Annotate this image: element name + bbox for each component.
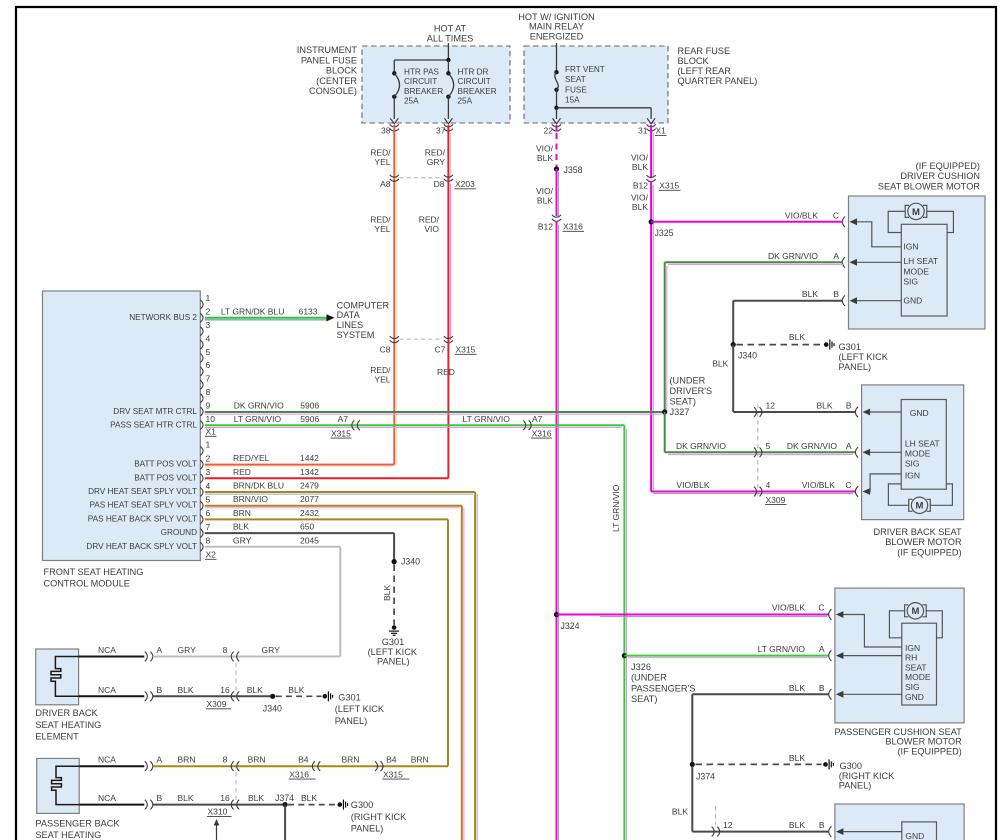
svg-text:7: 7 xyxy=(206,522,211,532)
svg-text:CIRCUIT: CIRCUIT xyxy=(458,77,491,86)
border frame xyxy=(15,6,997,8)
svg-text:B: B xyxy=(819,683,825,693)
wire BLK vertical right xyxy=(691,694,693,831)
heating element symbol driver xyxy=(51,657,79,697)
wire VIO/BLK dashed segment xyxy=(556,125,558,131)
label under passenger's seat xyxy=(631,662,695,704)
svg-text:G300: G300 xyxy=(351,800,373,810)
wire RED/YEL vertical xyxy=(393,125,395,465)
svg-text:1342: 1342 xyxy=(300,467,319,477)
svg-text:4: 4 xyxy=(206,481,211,491)
svg-text:5906: 5906 xyxy=(300,401,319,411)
svg-text:X316: X316 xyxy=(289,769,309,779)
svg-text:B12: B12 xyxy=(633,181,648,191)
svg-text:BLK: BLK xyxy=(712,359,728,369)
svg-text:2: 2 xyxy=(206,307,211,317)
svg-text:38: 38 xyxy=(381,126,391,136)
svg-text:VIO/BLK: VIO/BLK xyxy=(802,480,835,490)
svg-text:15A: 15A xyxy=(565,96,580,105)
svg-text:MAIN RELAY: MAIN RELAY xyxy=(529,22,584,32)
wire BLK dashed element to G301 xyxy=(276,695,322,697)
svg-text:YEL: YEL xyxy=(374,375,390,385)
svg-text:(RIGHT KICK: (RIGHT KICK xyxy=(839,771,895,781)
label computer data lines system xyxy=(337,300,390,340)
svg-text:BLOCK: BLOCK xyxy=(678,56,710,66)
svg-text:LT GRN/DK BLU: LT GRN/DK BLU xyxy=(221,306,284,316)
wire BLK module pin 7 xyxy=(205,532,394,534)
wire NCA driver B xyxy=(79,695,145,697)
svg-text:LT GRN/VIO: LT GRN/VIO xyxy=(758,644,806,654)
label passenger cushion motor xyxy=(835,727,963,757)
wire BLK passenger row xyxy=(153,804,285,806)
svg-text:B: B xyxy=(846,401,852,411)
connector pin B passenger element xyxy=(150,800,153,810)
svg-text:M: M xyxy=(911,606,919,617)
ground G301 right xyxy=(824,342,829,347)
svg-text:YEL: YEL xyxy=(374,157,390,167)
wire BLK passenger cushion B xyxy=(692,693,829,695)
svg-text:X309: X309 xyxy=(766,495,786,505)
driver back motor box xyxy=(862,385,964,520)
svg-text:G301: G301 xyxy=(338,693,360,703)
wire BLK dashed to G300 right xyxy=(696,763,822,765)
svg-text:J340: J340 xyxy=(738,351,757,361)
svg-text:A: A xyxy=(833,251,839,261)
connector A7 X316 xyxy=(529,420,532,430)
svg-text:BRN: BRN xyxy=(178,755,196,765)
connector pin A passenger element xyxy=(150,761,153,771)
svg-text:12: 12 xyxy=(723,820,733,830)
svg-text:SEAT: SEAT xyxy=(565,75,586,84)
svg-text:1: 1 xyxy=(206,293,211,303)
svg-text:FUSE: FUSE xyxy=(565,85,587,94)
wire VIO/BLK to passenger cushion C xyxy=(557,614,830,616)
svg-text:B: B xyxy=(833,289,839,299)
fuse FRT VENT SEAT 15A xyxy=(554,70,558,74)
motor M1 loop wires xyxy=(888,211,905,232)
wire VIO/BLK to driver cushion C xyxy=(651,221,843,223)
wire RED/VIO segment xyxy=(447,178,449,340)
svg-text:BLK: BLK xyxy=(537,196,553,206)
svg-text:VIO/: VIO/ xyxy=(536,144,554,154)
svg-text:8: 8 xyxy=(206,536,211,546)
svg-text:MODE: MODE xyxy=(905,672,931,682)
svg-text:DRIVER BACK SEAT: DRIVER BACK SEAT xyxy=(873,527,962,537)
connector 8 GRY xyxy=(231,652,234,662)
svg-text:A8: A8 xyxy=(380,179,391,189)
wire VIO/BLK turn to row 4 xyxy=(651,491,855,493)
svg-text:VIO: VIO xyxy=(424,224,439,234)
wire BRN module pin 6 xyxy=(205,518,448,520)
svg-text:REAR FUSE: REAR FUSE xyxy=(678,46,731,56)
connector D8 X203 xyxy=(444,175,453,178)
svg-text:B4: B4 xyxy=(386,755,397,765)
svg-text:BLK: BLK xyxy=(288,685,304,695)
module connector X1 pins 1-10 xyxy=(200,300,203,309)
svg-text:(LEFT KICK: (LEFT KICK xyxy=(839,352,889,362)
svg-text:IGN: IGN xyxy=(905,470,920,480)
svg-text:16: 16 xyxy=(220,793,230,803)
wire NCA passenger B xyxy=(79,804,144,806)
svg-text:25A: 25A xyxy=(458,97,473,106)
svg-text:J326: J326 xyxy=(631,662,651,672)
wire BRN/DK BLU module pin 4 xyxy=(205,491,475,493)
pin A passenger cushion xyxy=(829,650,832,661)
dash link X203 xyxy=(400,177,444,179)
svg-text:(IF EQUIPPED): (IF EQUIPPED) xyxy=(916,161,980,171)
svg-text:X315: X315 xyxy=(383,769,403,779)
svg-text:NCA: NCA xyxy=(98,685,116,695)
svg-text:VIO/: VIO/ xyxy=(631,153,649,163)
svg-text:4: 4 xyxy=(206,333,211,343)
svg-text:5: 5 xyxy=(206,347,211,357)
svg-text:BRN/DK BLU: BRN/DK BLU xyxy=(233,481,284,491)
motor M3 xyxy=(907,603,923,619)
svg-text:(IF EQUIPPED): (IF EQUIPPED) xyxy=(897,547,961,557)
connector C8 X315 xyxy=(390,336,399,339)
pin B passenger cushion xyxy=(829,689,832,700)
svg-text:LT GRN/VIO: LT GRN/VIO xyxy=(234,414,282,424)
svg-text:C: C xyxy=(833,210,839,220)
svg-text:SIG: SIG xyxy=(903,277,918,287)
dash boundary X309 xyxy=(757,404,759,496)
junction J340 module xyxy=(392,559,397,564)
svg-text:6133: 6133 xyxy=(299,306,318,316)
svg-text:GND: GND xyxy=(905,831,924,840)
svg-text:X203: X203 xyxy=(455,179,475,189)
wire DK GRN/VIO J327 down xyxy=(664,412,666,452)
svg-text:5: 5 xyxy=(206,495,211,505)
svg-text:6: 6 xyxy=(206,360,211,370)
svg-text:FRT VENT: FRT VENT xyxy=(565,65,605,74)
svg-text:LH SEAT: LH SEAT xyxy=(905,438,940,448)
svg-text:LT GRN/VIO: LT GRN/VIO xyxy=(463,414,511,424)
svg-text:6: 6 xyxy=(206,508,211,518)
svg-text:IGN: IGN xyxy=(905,643,920,653)
row pin 12 bottom xyxy=(692,831,829,833)
svg-text:BLK: BLK xyxy=(178,793,194,803)
svg-text:GND: GND xyxy=(905,692,924,702)
svg-text:VIO/: VIO/ xyxy=(536,186,554,196)
svg-text:C: C xyxy=(818,603,824,613)
svg-text:BLK: BLK xyxy=(789,683,805,693)
wire DK GRN/VIO vertical to J327 xyxy=(664,262,666,412)
front seat heating control module box xyxy=(43,291,201,561)
svg-text:SYSTEM: SYSTEM xyxy=(337,330,375,340)
svg-text:25A: 25A xyxy=(404,97,419,106)
svg-text:9: 9 xyxy=(206,400,211,410)
svg-text:BLOWER MOTOR: BLOWER MOTOR xyxy=(885,737,962,747)
motor M1 xyxy=(908,203,924,219)
ground G300 element xyxy=(338,802,343,807)
svg-text:SEAT HEATING: SEAT HEATING xyxy=(35,830,101,840)
module pin labels xyxy=(86,313,197,551)
svg-text:GROUND: GROUND xyxy=(161,528,197,537)
svg-text:SEAT): SEAT) xyxy=(670,397,696,407)
svg-text:X316: X316 xyxy=(532,428,552,438)
svg-text:BREAKER: BREAKER xyxy=(404,87,443,96)
svg-text:SEAT): SEAT) xyxy=(631,694,657,704)
svg-text:J340: J340 xyxy=(401,557,420,567)
svg-text:RED: RED xyxy=(233,467,251,477)
connector pin B driver element xyxy=(150,691,153,701)
svg-text:HOT AT: HOT AT xyxy=(434,24,467,34)
label driver back seat heating element xyxy=(35,708,101,741)
labels inside passenger cushion motor xyxy=(905,643,931,702)
svg-text:J325: J325 xyxy=(655,228,674,238)
connector B12 X315 xyxy=(647,175,656,178)
label front seat heating control module xyxy=(44,567,144,589)
motor M2 loop wires xyxy=(888,484,908,505)
svg-text:(LEFT KICK: (LEFT KICK xyxy=(335,704,385,714)
svg-text:RED/: RED/ xyxy=(425,148,446,158)
wire LT GRN/VIO to passenger cushion A xyxy=(624,655,829,657)
svg-text:8: 8 xyxy=(223,645,228,655)
svg-text:VIO/BLK: VIO/BLK xyxy=(785,210,818,220)
svg-text:PAS HEAT BACK SPLY VOLT: PAS HEAT BACK SPLY VOLT xyxy=(88,514,197,523)
svg-text:5906: 5906 xyxy=(300,414,319,424)
wire VIO/BLK long vertical xyxy=(556,221,558,840)
svg-text:BLK: BLK xyxy=(537,153,553,163)
wire RED/YEL module pin 2 xyxy=(205,464,394,466)
svg-text:BLK: BLK xyxy=(802,289,818,299)
rear fuse block box xyxy=(524,46,668,123)
wire breaker HTR DR output xyxy=(447,97,449,119)
svg-text:BLK: BLK xyxy=(789,753,805,763)
wire BLK driver cushion B xyxy=(733,300,843,302)
svg-text:YEL: YEL xyxy=(374,224,390,234)
svg-text:2: 2 xyxy=(206,453,211,463)
svg-text:G301: G301 xyxy=(839,342,861,352)
svg-text:BLK: BLK xyxy=(789,820,805,830)
wire LT GRN/VIO from pin 10 xyxy=(205,424,625,426)
dash boundary X310 elements xyxy=(235,772,237,800)
junction J324 xyxy=(554,612,559,617)
svg-text:PANEL): PANEL) xyxy=(839,362,872,372)
label driver cushion motor xyxy=(878,161,980,191)
svg-text:650: 650 xyxy=(300,522,314,532)
svg-text:BLK: BLK xyxy=(301,793,317,803)
wire VIO/BLK to X316 xyxy=(556,169,558,216)
svg-text:M: M xyxy=(912,207,920,218)
wire NCA driver A xyxy=(79,656,145,658)
svg-text:NETWORK BUS 2: NETWORK BUS 2 xyxy=(129,313,197,322)
svg-text:DRIVER CUSHION: DRIVER CUSHION xyxy=(900,171,980,181)
svg-text:A7: A7 xyxy=(532,414,543,424)
svg-text:LINES: LINES xyxy=(337,320,364,330)
svg-text:GRY: GRY xyxy=(262,645,281,655)
svg-text:B: B xyxy=(819,820,825,830)
svg-text:2479: 2479 xyxy=(300,481,319,491)
svg-text:PASS SEAT HTR CTRL: PASS SEAT HTR CTRL xyxy=(110,420,197,429)
svg-text:VIO/: VIO/ xyxy=(631,192,649,202)
pin B driver cushion xyxy=(842,295,845,306)
svg-text:DK GRN/VIO: DK GRN/VIO xyxy=(676,441,726,451)
svg-text:(UNDER: (UNDER xyxy=(631,673,667,683)
driver back heating element box xyxy=(36,649,79,705)
svg-text:PANEL): PANEL) xyxy=(839,781,872,791)
svg-text:31: 31 xyxy=(638,126,648,136)
svg-text:CIRCUIT: CIRCUIT xyxy=(404,77,437,86)
svg-text:ENERGIZED: ENERGIZED xyxy=(530,31,584,41)
row pin 5 DK GRN/VIO xyxy=(665,451,855,453)
connector C7 X315 xyxy=(444,336,453,339)
svg-text:(LEFT KICK: (LEFT KICK xyxy=(368,647,418,657)
svg-text:BLK: BLK xyxy=(632,162,648,172)
svg-text:8: 8 xyxy=(206,387,211,397)
svg-text:BRN: BRN xyxy=(342,755,360,765)
svg-text:1: 1 xyxy=(206,440,211,450)
svg-text:X315: X315 xyxy=(331,428,351,438)
connector 16 X310 xyxy=(231,800,234,810)
svg-text:X310: X310 xyxy=(208,807,228,817)
label rear fuse block xyxy=(678,46,758,86)
wire LT GRN/VIO vertical xyxy=(623,425,625,840)
svg-text:C8: C8 xyxy=(380,345,391,355)
junction J358 xyxy=(554,166,559,171)
svg-text:X315: X315 xyxy=(456,345,476,355)
svg-text:RED/: RED/ xyxy=(419,215,440,225)
svg-text:22: 22 xyxy=(544,126,554,136)
svg-text:CONTROL MODULE: CONTROL MODULE xyxy=(44,579,130,589)
circuit breaker HTR PAS 25A xyxy=(392,71,396,75)
wire feed ignition xyxy=(556,43,558,72)
svg-text:BLK: BLK xyxy=(178,685,194,695)
svg-text:RED/YEL: RED/YEL xyxy=(233,453,270,463)
svg-text:(CENTER: (CENTER xyxy=(316,76,357,86)
svg-text:7: 7 xyxy=(206,374,211,384)
svg-text:GRY: GRY xyxy=(427,157,446,167)
svg-text:SEAT: SEAT xyxy=(905,662,927,672)
svg-text:ALL TIMES: ALL TIMES xyxy=(427,34,473,44)
svg-text:DATA: DATA xyxy=(337,310,361,320)
passenger back inner box xyxy=(902,822,937,840)
junction J340 right xyxy=(731,342,736,347)
svg-text:RED/: RED/ xyxy=(370,365,391,375)
label under driver's seat xyxy=(670,376,713,418)
pin B passenger back xyxy=(829,826,832,837)
junction J325 xyxy=(649,219,654,224)
svg-text:G301: G301 xyxy=(382,637,404,647)
svg-text:BLK: BLK xyxy=(233,522,249,532)
wire VIO/BLK right vertical xyxy=(650,181,652,492)
svg-text:B: B xyxy=(157,685,163,695)
svg-text:NCA: NCA xyxy=(98,645,116,655)
circuit breaker HTR DR 25A xyxy=(447,60,449,73)
svg-text:DRIVER BACK: DRIVER BACK xyxy=(35,708,98,718)
svg-text:RED: RED xyxy=(437,367,455,377)
wire DK GRN/VIO to driver cushion A xyxy=(665,261,843,263)
svg-text:PASSENGER'S: PASSENGER'S xyxy=(631,683,695,693)
svg-text:X2: X2 xyxy=(206,550,217,560)
svg-text:10: 10 xyxy=(206,414,216,424)
svg-text:B4: B4 xyxy=(298,755,309,765)
svg-text:INSTRUMENT: INSTRUMENT xyxy=(297,45,358,55)
motor M3 loop wires xyxy=(889,611,904,638)
svg-text:PASSENGER CUSHION SEAT: PASSENGER CUSHION SEAT xyxy=(835,727,963,737)
wire NCA passenger A xyxy=(79,765,144,767)
label hot at all times xyxy=(427,24,473,44)
svg-text:RH: RH xyxy=(905,653,917,663)
driver cushion motor box xyxy=(849,196,986,329)
junction feed xyxy=(446,58,450,62)
labels inside driver back motor xyxy=(905,408,940,480)
svg-text:FRONT SEAT HEATING: FRONT SEAT HEATING xyxy=(44,567,144,577)
svg-text:BLK: BLK xyxy=(817,401,833,411)
connector 16 X309 xyxy=(231,691,234,701)
row pin 12 BLK xyxy=(733,411,855,413)
row pin 4 VIO/BLK X309 xyxy=(760,487,763,497)
svg-text:BLK: BLK xyxy=(382,585,392,601)
wire DK GRN/VIO from module pin 9 xyxy=(205,411,665,413)
svg-text:BLOCK: BLOCK xyxy=(326,66,358,76)
svg-text:LH SEAT: LH SEAT xyxy=(903,256,938,266)
svg-text:SIG: SIG xyxy=(905,458,920,468)
svg-text:GND: GND xyxy=(903,296,922,306)
svg-text:37: 37 xyxy=(436,126,446,136)
svg-text:BLK: BLK xyxy=(248,793,264,803)
junction J326 xyxy=(622,653,627,658)
svg-text:A: A xyxy=(157,755,163,765)
driver back motor inner box xyxy=(901,400,946,490)
wire breaker HTR PAS output xyxy=(393,97,395,119)
svg-text:(IF EQUIPPED): (IF EQUIPPED) xyxy=(897,747,961,757)
svg-text:VIO/BLK: VIO/BLK xyxy=(772,603,805,613)
wire VIO/BLK right upper xyxy=(650,125,652,177)
wire BLK J340 to pin12 row xyxy=(732,345,734,412)
wire RED segment xyxy=(447,340,449,478)
svg-text:NCA: NCA xyxy=(98,793,116,803)
label passenger back seat heating xyxy=(35,819,120,840)
svg-text:BRN: BRN xyxy=(233,508,251,518)
svg-text:X315: X315 xyxy=(659,181,679,191)
svg-text:M: M xyxy=(916,501,924,512)
label hot w/ ignition xyxy=(518,12,594,41)
connector A8 X203 xyxy=(390,175,399,178)
wire LT GRN/DK BLU network bus xyxy=(205,317,327,319)
ground G301 element xyxy=(323,694,328,699)
pin C driver cushion xyxy=(842,217,845,228)
svg-text:A: A xyxy=(157,645,163,655)
svg-text:PAS HEAT SEAT SPLY VOLT: PAS HEAT SEAT SPLY VOLT xyxy=(89,501,197,510)
svg-text:PANEL FUSE: PANEL FUSE xyxy=(301,55,357,65)
svg-text:ELEMENT: ELEMENT xyxy=(35,732,79,742)
junction J374 right xyxy=(690,762,695,767)
wire fuse output xyxy=(556,90,558,108)
wire BLK dashed to G301 xyxy=(737,344,823,346)
svg-text:B: B xyxy=(157,793,163,803)
svg-text:X1: X1 xyxy=(656,126,667,136)
svg-text:BRN: BRN xyxy=(248,755,266,765)
svg-text:3: 3 xyxy=(206,467,211,477)
svg-text:X309: X309 xyxy=(207,699,227,709)
svg-text:BLK: BLK xyxy=(247,685,263,695)
svg-text:SIG: SIG xyxy=(905,682,920,692)
pin A driver cushion xyxy=(842,257,845,268)
dash link X315 xyxy=(400,338,444,340)
svg-text:BLOWER MOTOR: BLOWER MOTOR xyxy=(885,537,962,547)
svg-text:J374: J374 xyxy=(275,793,294,803)
motor M2 xyxy=(911,497,927,513)
svg-text:GRY: GRY xyxy=(178,645,197,655)
wire GRY module pin 8 xyxy=(205,546,340,548)
svg-text:B12: B12 xyxy=(538,222,553,232)
dash boundary X309 elements xyxy=(235,663,237,691)
svg-text:DRV HEAT SEAT SPLY VOLT: DRV HEAT SEAT SPLY VOLT xyxy=(88,487,197,496)
wire BRN/VIO module pin 5 xyxy=(205,505,462,507)
svg-text:NCA: NCA xyxy=(98,755,116,765)
svg-text:X316: X316 xyxy=(563,222,583,232)
